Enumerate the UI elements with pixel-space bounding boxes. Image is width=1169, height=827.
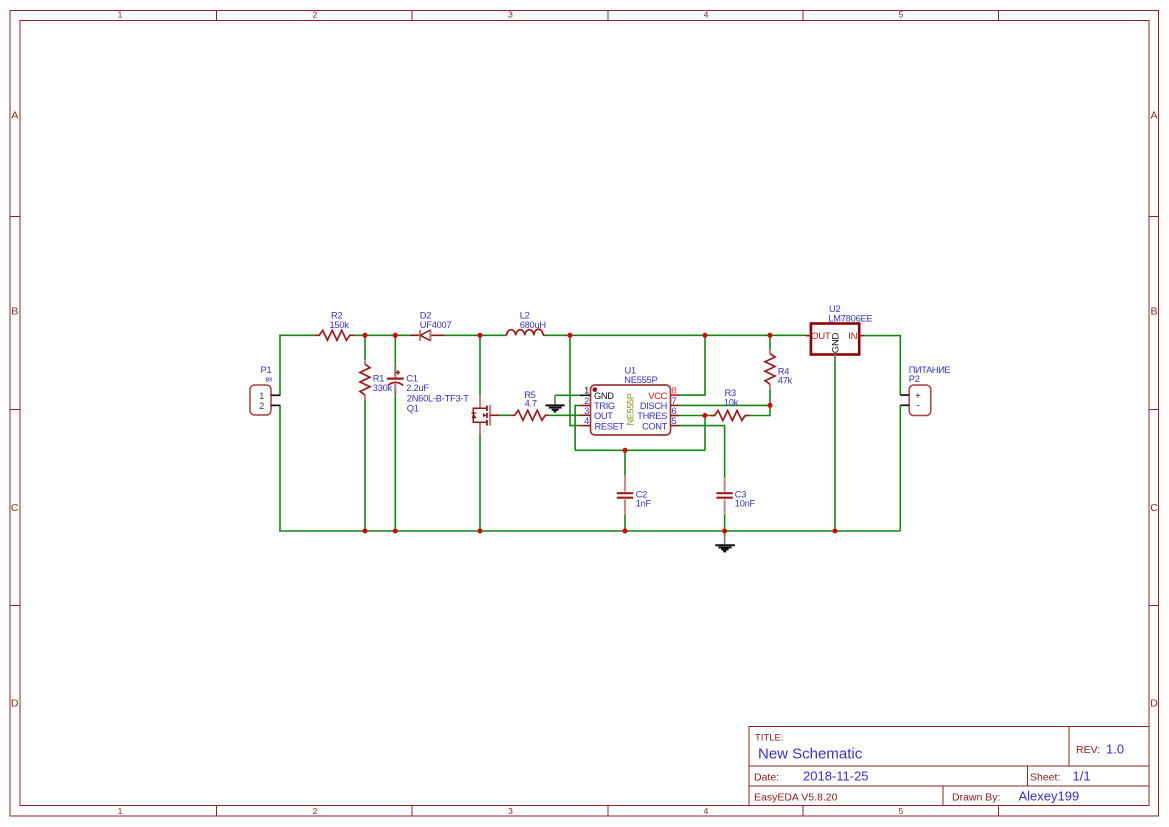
svg-text:D: D	[11, 698, 19, 710]
svg-text:GND: GND	[594, 391, 614, 401]
svg-text:2.2uF: 2.2uF	[406, 383, 429, 393]
svg-text:680uH: 680uH	[520, 320, 546, 330]
svg-text:THRES: THRES	[637, 411, 667, 421]
resistor R4	[765, 350, 775, 390]
wire gate to R5	[499, 414, 510, 416]
svg-text:Q1: Q1	[407, 403, 419, 413]
svg-text:вх: вх	[266, 377, 273, 384]
svg-text:GND: GND	[831, 332, 842, 353]
svg-text:10nF: 10nF	[735, 499, 756, 509]
resistor R1	[360, 360, 370, 400]
U1 pin names	[594, 391, 668, 431]
svg-text:6: 6	[672, 406, 677, 416]
svg-text:Date:: Date:	[754, 772, 779, 784]
wire R5 to U1.OUT	[549, 414, 579, 416]
wire top rail L2 to U2.OUT	[545, 334, 806, 336]
svg-text:CONT: CONT	[642, 421, 668, 431]
capacitor C1	[387, 365, 404, 395]
wire Q1 source stub	[479, 435, 481, 532]
svg-text:5: 5	[899, 806, 904, 816]
U1 pin 1 line	[580, 394, 591, 396]
transistor Q1	[471, 395, 499, 434]
svg-text:4: 4	[704, 806, 709, 816]
wire ground1 to U1.GND	[555, 394, 580, 396]
svg-text:3: 3	[508, 10, 513, 20]
svg-text:OUT: OUT	[594, 411, 613, 421]
frame row letters left	[11, 110, 1158, 710]
svg-text:2: 2	[313, 10, 318, 20]
wire C1 top stub	[394, 335, 396, 365]
svg-text:DISCH: DISCH	[640, 401, 667, 411]
svg-text:7: 7	[672, 396, 677, 406]
svg-text:3: 3	[584, 406, 589, 416]
svg-text:4.7: 4.7	[525, 399, 537, 409]
node C1 bottom	[393, 529, 398, 534]
node R1 bottom	[363, 529, 368, 534]
U1 pin 6 line	[671, 415, 680, 417]
svg-text:Drawn By:: Drawn By:	[952, 792, 1000, 804]
svg-text:1: 1	[118, 10, 123, 20]
svg-text:-: -	[917, 401, 920, 412]
svg-text:2N60L-B-TF3-T: 2N60L-B-TF3-T	[407, 393, 469, 403]
node THRES R3	[703, 413, 708, 418]
svg-text:B: B	[11, 306, 18, 318]
wire R1 bottom stub	[364, 400, 366, 531]
svg-text:EasyEDA V5.8.20: EasyEDA V5.8.20	[754, 792, 838, 804]
inductor L2	[505, 329, 545, 335]
node C2 bottom	[623, 529, 628, 534]
wire top rail D2 to L2	[444, 334, 505, 336]
svg-text:5: 5	[672, 416, 677, 426]
U1 pin 8 line	[671, 394, 680, 396]
svg-text:P2: P2	[909, 374, 920, 384]
connector P2 body	[900, 385, 931, 416]
wire top rail left segment P1.1 to R2	[280, 335, 315, 395]
svg-text:1/1: 1/1	[1073, 769, 1091, 784]
frame row ticks right	[1149, 217, 1159, 606]
wire bottom rail	[280, 405, 900, 531]
node VCC rail	[703, 333, 708, 338]
svg-text:New Schematic: New Schematic	[758, 746, 863, 763]
svg-text:Alexey199: Alexey199	[1019, 789, 1080, 804]
svg-text:VCC: VCC	[648, 391, 667, 401]
frame column ticks top	[217, 11, 999, 21]
node C2 top	[623, 448, 628, 453]
wire C2 bottom stub	[624, 515, 626, 531]
svg-text:8: 8	[672, 386, 677, 396]
svg-text:5: 5	[899, 10, 904, 20]
node R4 rail	[768, 333, 773, 338]
svg-text:NE555P: NE555P	[624, 375, 657, 385]
svg-text:IN: IN	[848, 331, 857, 342]
wire R4 bottom stub	[769, 390, 771, 406]
voltage regulator U2 body	[806, 324, 864, 362]
node Q1 drain rail	[478, 333, 483, 338]
svg-text:47k: 47k	[778, 376, 793, 386]
node U2 GND bottom	[833, 529, 838, 534]
svg-text:330k: 330k	[373, 383, 393, 393]
svg-text:LM7806EE: LM7806EE	[828, 313, 872, 323]
wire THRES to R3	[680, 415, 711, 417]
svg-text:2: 2	[584, 396, 589, 406]
wire CONT to C3	[680, 426, 725, 477]
wire TRIG-THRES bottom link	[575, 449, 705, 451]
svg-text:1.0: 1.0	[1106, 742, 1124, 757]
wire Q1 drain stub	[479, 335, 481, 395]
svg-text:UF4007: UF4007	[420, 320, 452, 330]
title block	[749, 727, 1149, 806]
resistor R5	[510, 410, 549, 420]
frame column ticks bottom	[217, 806, 999, 817]
svg-text:1: 1	[118, 806, 123, 816]
ground below C3	[715, 536, 735, 552]
resistor R2	[315, 330, 355, 340]
U1 pin 2 line	[580, 405, 591, 407]
resistor R3	[711, 411, 750, 421]
svg-text:TITLE:: TITLE:	[755, 733, 784, 744]
svg-text:3: 3	[508, 806, 513, 816]
svg-text:2: 2	[313, 806, 318, 816]
svg-text:A: A	[11, 110, 18, 122]
svg-text:OUT: OUT	[811, 331, 831, 342]
wire U2.IN to P2	[864, 336, 900, 396]
svg-text:4: 4	[704, 10, 709, 20]
node C1 top	[393, 333, 398, 338]
op-amp U1 body	[591, 385, 671, 435]
svg-text:2018-11-25: 2018-11-25	[803, 769, 869, 784]
wire RESET net vertical	[570, 335, 580, 425]
svg-text:B: B	[1150, 306, 1157, 318]
capacitor C3	[716, 477, 732, 515]
wire C3 ground stub	[724, 531, 726, 536]
svg-text:A: A	[1150, 110, 1157, 122]
wire R1 top stub	[364, 335, 366, 360]
svg-text:REV:: REV:	[1076, 744, 1100, 756]
diode D2	[410, 330, 444, 341]
svg-text:1nF: 1nF	[636, 499, 652, 509]
connector P1 body	[250, 385, 280, 415]
wire U2.GND down	[834, 362, 836, 531]
wire C2 top stub	[624, 450, 626, 475]
svg-text:TRIG: TRIG	[594, 401, 615, 411]
wire C3 bottom stub	[724, 515, 726, 531]
svg-text:P1: P1	[261, 365, 272, 375]
capacitor C2	[617, 476, 633, 515]
U1 pin 5 line	[671, 425, 680, 427]
svg-text:150k: 150k	[330, 320, 350, 330]
svg-text:D: D	[1150, 698, 1158, 710]
frame row ticks left	[10, 217, 20, 606]
svg-text:1: 1	[259, 391, 264, 401]
node C3 bottom	[722, 529, 727, 534]
wire VCC to rail	[680, 335, 706, 395]
svg-text:C: C	[11, 502, 19, 514]
wire TRIG down	[575, 406, 579, 451]
svg-text:1: 1	[584, 386, 589, 396]
svg-text:Sheet:: Sheet:	[1030, 772, 1060, 784]
U1 pin 3 line	[580, 414, 591, 416]
wire C1 bottom stub	[394, 395, 396, 531]
svg-text:4: 4	[584, 416, 589, 426]
svg-text:C: C	[1150, 502, 1158, 514]
svg-text:NE555P: NE555P	[626, 393, 636, 425]
ground near U1 pin1	[545, 395, 564, 411]
wire P2 minus down	[899, 405, 901, 531]
node R1 top	[363, 333, 368, 338]
svg-text:2: 2	[259, 401, 264, 411]
U1 pin 7 line	[671, 404, 680, 406]
wire top rail R2 to D2	[355, 334, 411, 336]
node Q1 source bottom	[478, 529, 483, 534]
svg-text:10k: 10k	[724, 397, 739, 407]
node DISCH R4	[768, 403, 773, 408]
wire R3 to DISCH net	[750, 405, 771, 415]
U1 pin numbers left	[584, 386, 589, 427]
wire R4 top stub	[769, 335, 771, 349]
U1 pin 4 line	[580, 425, 591, 427]
wire THRES vertical	[704, 416, 706, 451]
wire DISCH to R4	[680, 404, 771, 406]
svg-text:RESET: RESET	[595, 421, 625, 431]
node RESET rail	[568, 333, 573, 338]
